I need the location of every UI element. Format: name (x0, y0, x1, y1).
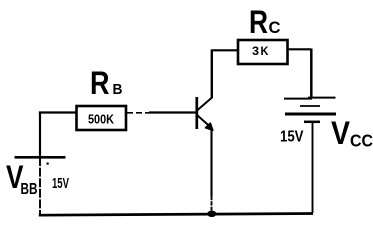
wire: bottom rail (39, 214, 313, 216)
label RC (249, 4, 281, 40)
svg-text:3: 3 (252, 45, 260, 58)
svg-text:B: B (113, 82, 123, 98)
svg-text:C: C (269, 18, 281, 37)
label VBB (6, 159, 38, 198)
svg-text:R: R (90, 65, 110, 101)
wire: collector up to RC left (211, 50, 238, 99)
label RB (90, 65, 123, 101)
battery VCC (284, 98, 336, 122)
wire: emitter down to bottom rail (210, 128, 212, 213)
wire: RC right to VCC battery (288, 49, 312, 99)
battery VBB (15, 156, 66, 159)
svg-text:BB: BB (21, 181, 38, 198)
wire: VCC battery down to bottom rail (312, 122, 314, 213)
svg-text:R: R (249, 4, 268, 40)
wire: RB right to transistor base (127, 112, 197, 114)
svg-text:K: K (261, 45, 270, 58)
transistor Q1 (197, 97, 213, 130)
svg-text:CC: CC (350, 131, 373, 151)
stray mark (47, 163, 49, 165)
svg-text:V: V (331, 115, 351, 151)
wire: VBB top to RB left (39, 112, 77, 159)
resistor RB (77, 106, 127, 130)
node: emitter junction dot (207, 211, 216, 217)
svg-text:500K: 500K (88, 112, 115, 127)
label VCC (331, 115, 373, 151)
wire: VBB down to bottom rail (39, 157, 41, 215)
resistor RC (238, 40, 288, 64)
svg-text:15V: 15V (52, 175, 69, 192)
svg-text:15V: 15V (280, 129, 304, 146)
